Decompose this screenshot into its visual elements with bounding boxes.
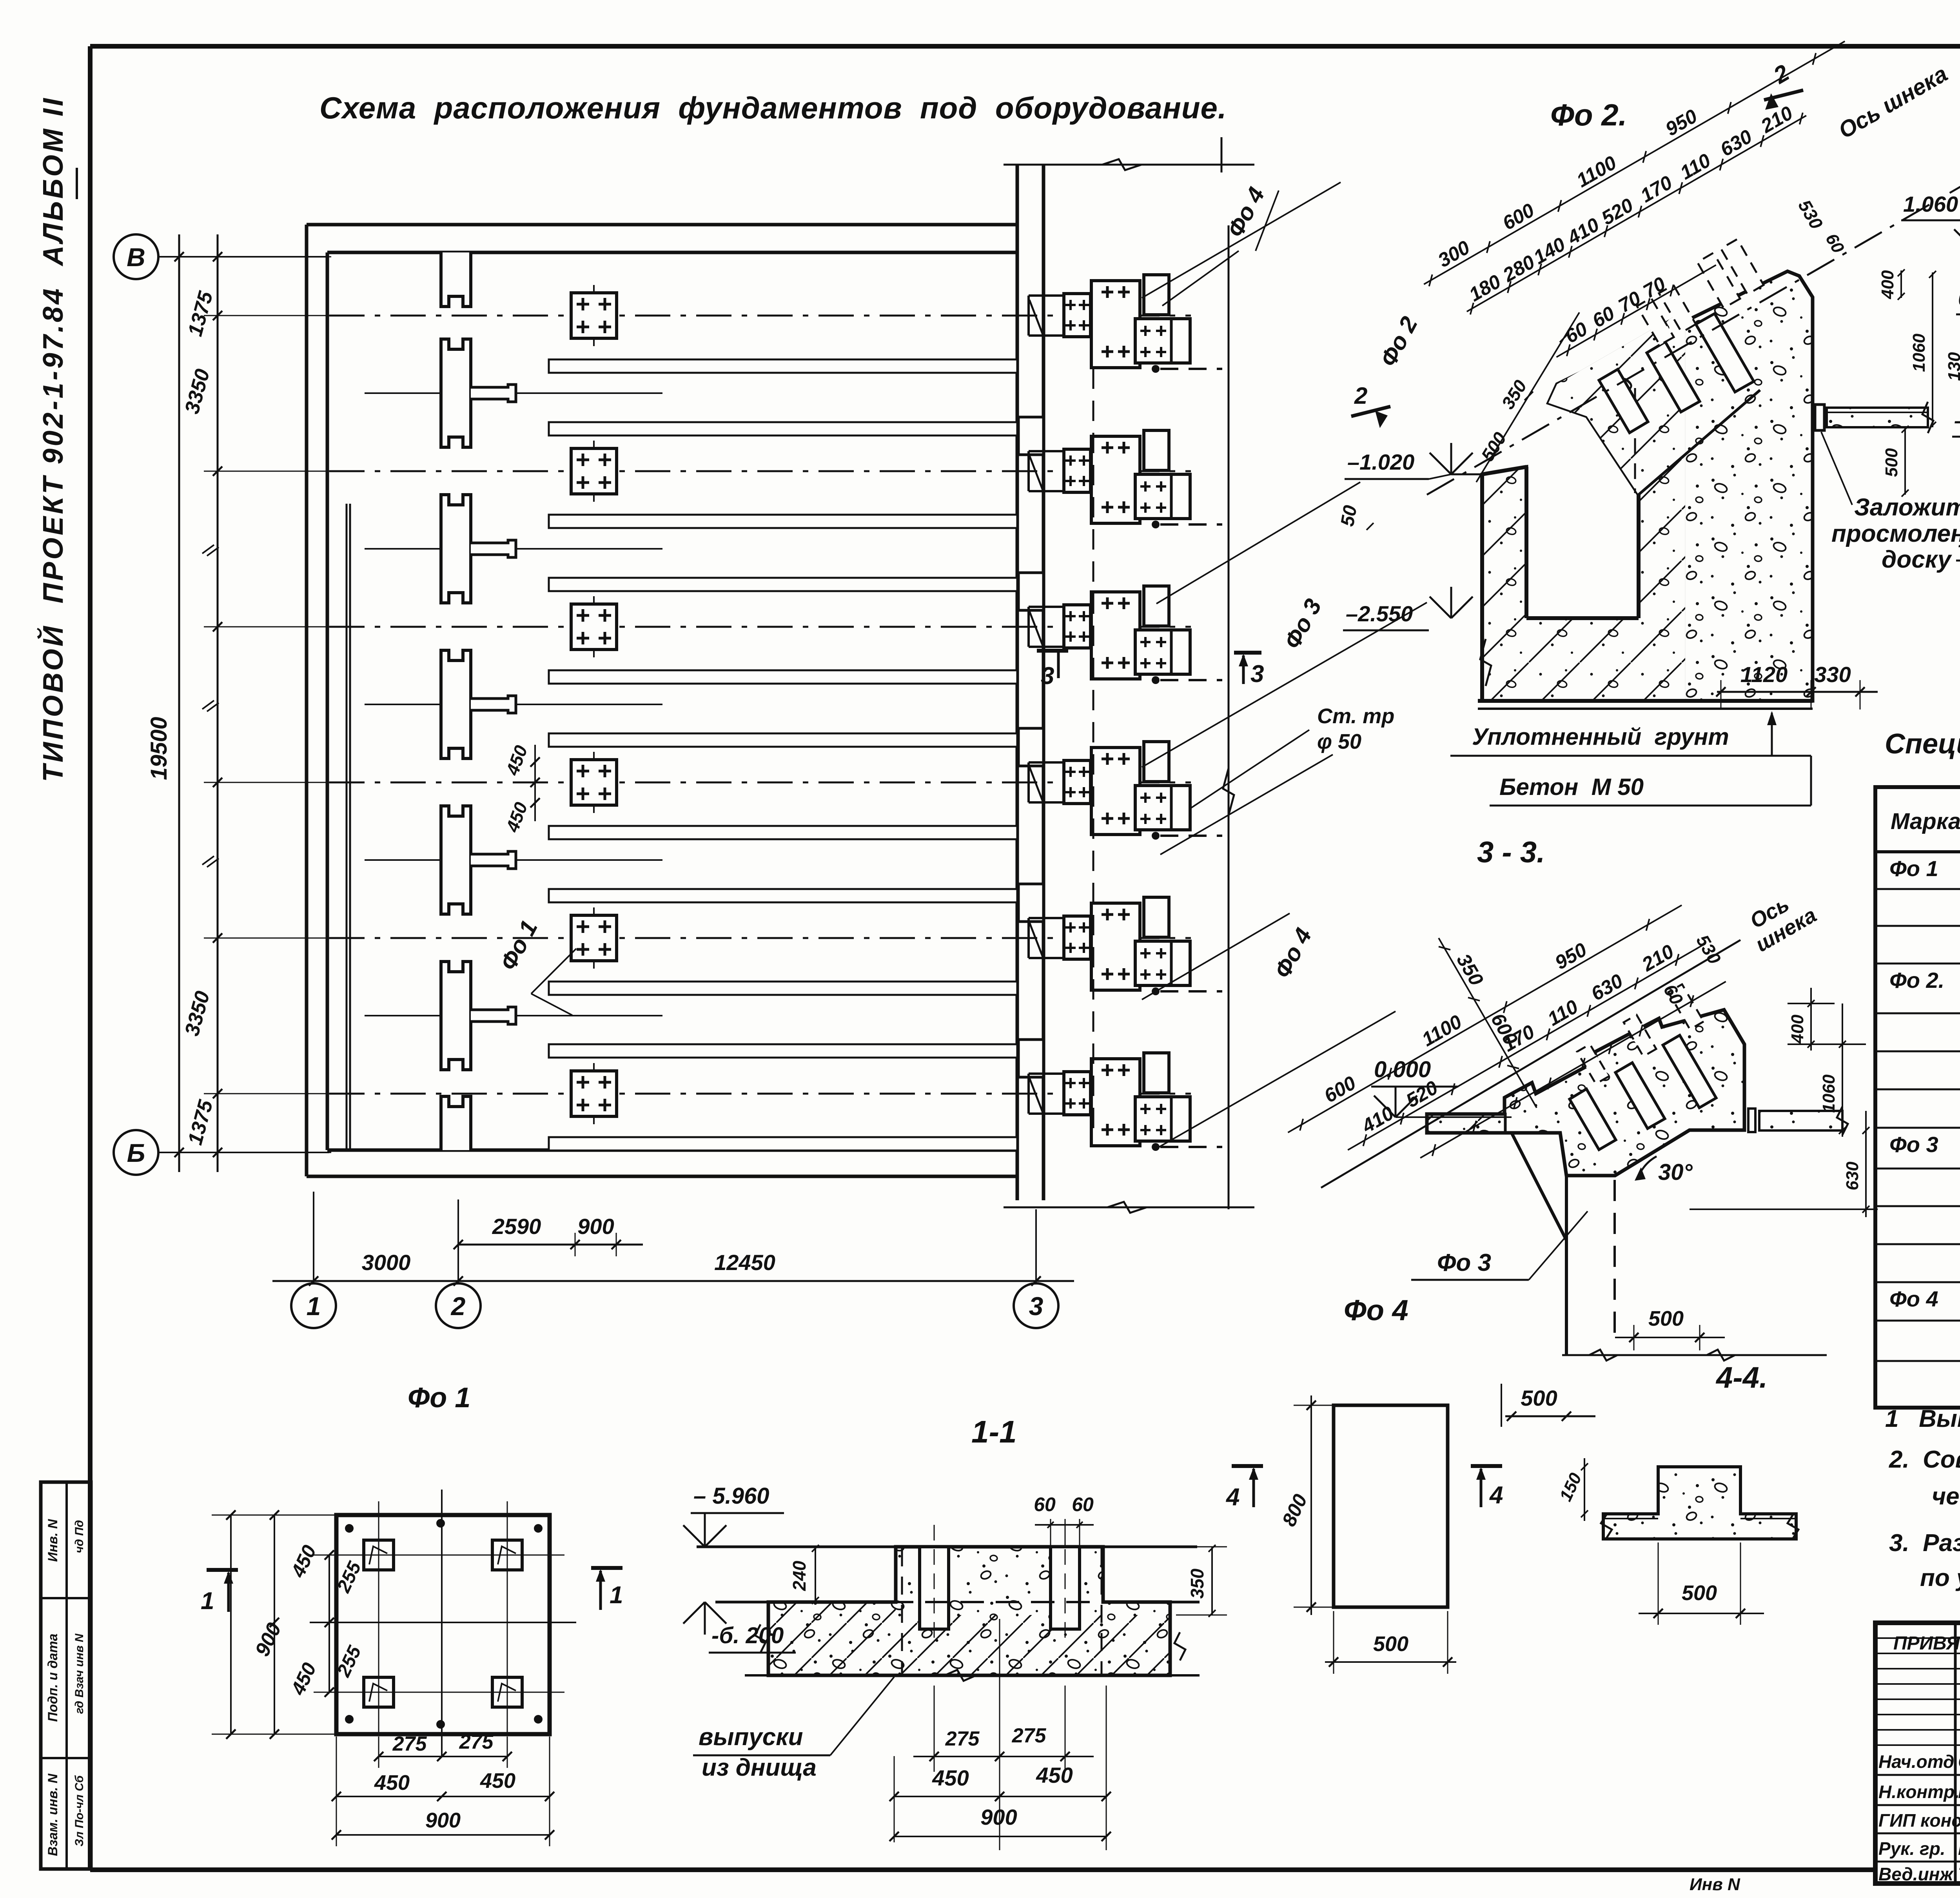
plan: section 3-3 cut marks (1037, 649, 1068, 653)
svg-text:2: 2 (450, 1292, 466, 1321)
svg-text:3: 3 (1250, 660, 1264, 688)
svg-text:Фо 4: Фо 4 (1889, 1287, 1938, 1311)
svg-text:Рук. гр.: Рук. гр. (1878, 1838, 1945, 1859)
Fo1 corner dots (345, 1524, 354, 1533)
svg-text:Вед.инж: Вед.инж (1878, 1864, 1954, 1884)
svg-text:3: 3 (1029, 1292, 1044, 1321)
svg-text:450: 450 (374, 1771, 410, 1795)
svg-text:–1.020: –1.020 (1347, 450, 1414, 474)
svg-text:1 Выпуски из днища смотри: 1 Выпуски из днища смотри лист КЖ-2, поз… (1885, 1405, 1960, 1432)
Fo2 protruding board & bar right (1815, 405, 1824, 430)
4-4 dim 150 (1584, 1458, 1585, 1521)
plan: dashed vertical line through clusters (1093, 368, 1094, 1139)
Fo1 anchor squares (364, 1540, 394, 1570)
svg-text:выпуски: выпуски (699, 1724, 803, 1751)
svg-text:доску: доску (1882, 546, 1953, 573)
svg-text:60: 60 (1034, 1493, 1056, 1515)
svg-text:Ст. тр: Ст. тр (1317, 704, 1394, 728)
svg-text:0.000: 0.000 (1958, 286, 1960, 310)
3-3 screw axis line (1321, 940, 1740, 1188)
plan: building outer walls (307, 223, 1017, 227)
svg-text:ТИПОВОЙ ПРОЕКТ 902-1-97.84 А: ТИПОВОЙ ПРОЕКТ 902-1-97.84 АЛЬБОМ II (36, 96, 69, 782)
svg-text:500: 500 (1682, 1581, 1717, 1605)
Fo2 right vertical dims 400/1060/130/500 (1900, 270, 1902, 298)
Fo4 section marks 4 (1232, 1464, 1263, 1468)
Fo4 dim 800 (1310, 1395, 1312, 1615)
svg-text:2590: 2590 (492, 1214, 541, 1239)
svg-text:2: 2 (1354, 383, 1367, 409)
svg-text:Заложить: Заложить (1854, 494, 1960, 521)
plan: partial pilaster top (441, 252, 471, 307)
plan: right foundation clusters Fo2/Fo3/Fo4 (1029, 275, 1222, 373)
Fo2 screw axis dash line (1427, 167, 1960, 495)
3-3 bottom break line (1562, 1354, 1827, 1356)
1-1 bottom dims (894, 1756, 895, 1842)
svg-text:275: 275 (392, 1733, 427, 1755)
svg-text:Нач.отд: Нач.отд (1878, 1751, 1954, 1772)
name rows (1875, 1774, 1960, 1776)
svg-text:1: 1 (307, 1292, 321, 1321)
Fo4 rectangle (1334, 1405, 1448, 1607)
svg-text:ПРИВЯЗАН: ПРИВЯЗАН (1893, 1633, 1960, 1654)
svg-text:Фо 2.: Фо 2. (1889, 968, 1944, 993)
1-1 concrete body (768, 1547, 1170, 1675)
3-3 slots on inclined face (1663, 1035, 1716, 1108)
Fo1 bottom dim chains (379, 1756, 507, 1757)
svg-text:19500: 19500 (146, 717, 172, 780)
svg-text:Б: Б (127, 1138, 145, 1167)
Fo2 inclined dimension fan (1413, 22, 1912, 400)
1-1 dim 350 right (1211, 1547, 1213, 1615)
svg-text:500: 500 (1882, 448, 1901, 477)
svg-text:ческие чертежи.: ческие чертежи. (1932, 1483, 1960, 1510)
svg-text:500: 500 (1521, 1386, 1557, 1410)
svg-text:φ 50: φ 50 (1317, 730, 1361, 753)
plan: left dimension chains (178, 234, 180, 1172)
svg-text:Фо 4: Фо 4 (1344, 1294, 1408, 1326)
svg-text:Фо 1: Фо 1 (408, 1382, 470, 1414)
1-1 sleeves (920, 1547, 949, 1629)
svg-text:Подп. и дата: Подп. и дата (45, 1633, 60, 1722)
svg-text:Зл По-чл Сб: Зл По-чл Сб (73, 1775, 86, 1847)
plan: screw axis dash-dot lines (329, 315, 1191, 317)
svg-text:– 5.960: – 5.960 (693, 1483, 769, 1509)
svg-text:Схема расположения фундамент: Схема расположения фундаментов под обору… (319, 91, 1227, 125)
svg-text:1: 1 (201, 1588, 214, 1615)
svg-text:гд Взач инв N: гд Взач инв N (73, 1633, 86, 1714)
Fo2 perpendicular dims lower-left (1476, 312, 1579, 482)
svg-text:-б. 200: -б. 200 (711, 1623, 784, 1648)
plan: screw beams (549, 359, 1017, 373)
1-1 dashed inner lines (901, 1548, 903, 1674)
svg-text:Обух: Обух (1958, 1810, 1960, 1831)
svg-text:4-4.: 4-4. (1715, 1361, 1768, 1394)
signature table columns (1954, 1623, 1957, 1883)
svg-text:ГИП конс.: ГИП конс. (1878, 1810, 1960, 1831)
left stamp column (41, 1482, 91, 1869)
plan: T-pilasters on wall axis 2 (441, 339, 471, 447)
svg-text:500: 500 (1648, 1307, 1684, 1330)
svg-text:630: 630 (1843, 1161, 1862, 1190)
svg-text:1.060: 1.060 (1903, 192, 1958, 216)
Fo2 bottom dims 1120/330 (1717, 691, 1878, 693)
svg-text:Фо 2.: Фо 2. (1550, 98, 1627, 132)
svg-text:350: 350 (1187, 1568, 1207, 1599)
Fo4 dim 500 bottom (1325, 1661, 1456, 1663)
svg-text:Марка: Марка (1891, 809, 1960, 834)
svg-text:Уплотненный грунт: Уплотненный грунт (1472, 724, 1729, 750)
svg-text:Н.контр.: Н.контр. (1878, 1782, 1960, 1802)
svg-text:–0 630: –0 630 (1954, 408, 1960, 433)
Fo2 lean-concrete overlay (1482, 310, 1685, 701)
svg-text:Бетон М 50: Бетон М 50 (1499, 774, 1644, 800)
3-3 concrete body (1427, 1010, 1744, 1176)
4-4 top 500 dim (1615, 1337, 1725, 1338)
svg-text:1: 1 (610, 1582, 623, 1609)
plan: right wall band (grid 3) (1016, 165, 1019, 1200)
spec table grid (1875, 787, 1960, 1408)
svg-text:1120: 1120 (1740, 662, 1788, 687)
svg-text:450: 450 (932, 1766, 969, 1790)
3-3 perpendicular dims 350/600 (1435, 927, 1556, 1110)
svg-text:Фо 3: Фо 3 (1889, 1132, 1938, 1157)
Fo1 section marks 1 (207, 1568, 238, 1572)
svg-text:275: 275 (459, 1731, 494, 1753)
svg-text:2. Совместно с данным „смо: 2. Совместно с данным „смотри электротех… (1889, 1446, 1960, 1473)
3-3 protruding bar right (1748, 1109, 1755, 1132)
1-1 top surface lines (697, 1546, 896, 1548)
svg-text:1060: 1060 (1909, 334, 1929, 372)
svg-text:Фо 1: Фо 1 (1889, 856, 1938, 881)
svg-text:900: 900 (425, 1809, 461, 1832)
plan: top boundary line with break (1004, 164, 1254, 166)
svg-text:Ковалинина: Ковалинина (1958, 1782, 1960, 1802)
svg-text:900: 900 (577, 1214, 614, 1239)
svg-text:В: В (127, 243, 145, 272)
Fo1 square (336, 1515, 550, 1734)
svg-text:3000: 3000 (362, 1250, 411, 1275)
svg-text:60: 60 (1072, 1493, 1094, 1515)
plan: diagonal leaders to labels (1162, 251, 1239, 306)
svg-text:Взам. инв. N: Взам. инв. N (45, 1773, 60, 1856)
svg-text:400: 400 (1788, 1014, 1807, 1044)
4-4 pedestal (1603, 1467, 1796, 1539)
1-1 bottom line (745, 1674, 1200, 1677)
1-1 dim 240 (815, 1547, 816, 1602)
svg-text:130: 130 (1945, 352, 1960, 381)
svg-text:450: 450 (1036, 1763, 1073, 1787)
svg-text:4: 4 (1225, 1484, 1240, 1511)
plan: grid circles and letters (114, 234, 158, 279)
plan: partial pilaster bottom (441, 1096, 471, 1150)
plan: Fo1 anchor pads (593, 285, 595, 346)
svg-text:по установочным чертежам о: по установочным чертежам оборудования. (1920, 1564, 1960, 1591)
svg-text:30°: 30° (1658, 1159, 1693, 1185)
svg-text:0.000: 0.000 (1374, 1057, 1431, 1082)
Fo2 inclined slots on face (1696, 314, 1754, 392)
svg-text:4: 4 (1489, 1482, 1503, 1509)
3-3 wedge triangle (1512, 1133, 1566, 1355)
svg-text:Сорокин: Сорокин (1958, 1751, 1960, 1772)
svg-text:500: 500 (1373, 1632, 1408, 1656)
svg-text:Булатова: Булатова (1958, 1838, 1960, 1859)
svg-text:400: 400 (1878, 270, 1897, 299)
svg-text:12450: 12450 (714, 1250, 775, 1275)
svg-text:450: 450 (480, 1769, 515, 1793)
svg-text:Фо 3: Фо 3 (1437, 1249, 1491, 1276)
title block outer (1875, 1623, 1960, 1883)
svg-text:из днища: из днища (702, 1754, 817, 1781)
Fo2 tar board note (1821, 432, 1852, 505)
3-3 floor slab hatched (1427, 1114, 1505, 1133)
1-1 lower diag hatch band (768, 1602, 1170, 1675)
plan: right outer line (1228, 225, 1230, 1209)
3-3 inclined dim fan (1277, 886, 1728, 1213)
svg-text:Инв. N: Инв. N (45, 1519, 60, 1562)
Fo2 dashed anchor sleeves above face (1721, 239, 1764, 294)
svg-text:275: 275 (945, 1727, 980, 1750)
svg-text:240: 240 (789, 1560, 809, 1591)
plan: 450/450 dims at pad row 4 (534, 745, 536, 821)
svg-text:275: 275 (1012, 1724, 1047, 1747)
svg-text:3. Разбивка клюзов в фунда: 3. Разбивка клюзов в фундаменте уточняет… (1889, 1530, 1960, 1557)
4-4 dim 500 below (1639, 1613, 1764, 1614)
svg-text:Спецификация к схеме распол: Спецификация к схеме расположения (1885, 728, 1960, 760)
page frame border (90, 44, 1960, 49)
svg-text:Ткачик: Ткачик (1958, 1864, 1960, 1884)
svg-text:1-1: 1-1 (971, 1414, 1017, 1449)
plan: mid lines through pilaster arms (365, 392, 662, 394)
svg-text:1060: 1060 (1819, 1074, 1838, 1113)
thin revision rows (1875, 1637, 1960, 1639)
Fo2 concrete body (1482, 271, 1813, 701)
plan: bottom dimension rows (458, 1244, 643, 1246)
svg-text:–2.550: –2.550 (1346, 601, 1413, 626)
Fo1 left dim chains (230, 1515, 232, 1734)
3-3 bottom 500 dim (1501, 1384, 1502, 1427)
svg-text:просмоленную: просмоленную (1831, 520, 1960, 547)
svg-text:50: 50 (1337, 504, 1361, 528)
svg-text:330: 330 (1814, 662, 1851, 687)
svg-text:900: 900 (980, 1805, 1017, 1829)
svg-text:Инв N: Инв N (1690, 1875, 1740, 1894)
plan: wall support blocks between clusters (1018, 417, 1044, 455)
3-3 right vertical dims 400/1060/630 (1788, 1003, 1835, 1004)
svg-text:чд Пд: чд Пд (73, 1520, 86, 1553)
svg-text:3 - 3.: 3 - 3. (1477, 836, 1545, 869)
svg-text:3: 3 (1041, 662, 1054, 690)
plan: inner double line along left wall (346, 504, 348, 1150)
